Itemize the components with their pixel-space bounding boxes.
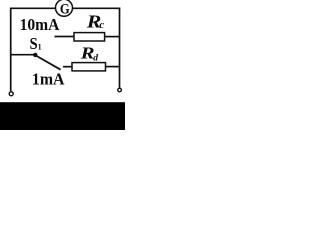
switch S1 arm (blade): [37, 56, 61, 70]
svg-text:1mA: 1mA: [32, 70, 65, 89]
wire left rail: [10, 8, 12, 92]
resistor Rc body: [74, 33, 105, 41]
label S1 (switch name): [30, 34, 42, 53]
svg-text:c: c: [99, 19, 104, 31]
galvanometer G (meter circle): [56, 0, 73, 17]
svg-text:1: 1: [38, 43, 42, 52]
svg-text:10mA: 10mA: [20, 15, 60, 34]
label Rd: [80, 43, 99, 63]
wire resistor Rc to right rail: [105, 36, 120, 38]
scan black band at page bottom: [0, 102, 125, 130]
resistor Rd body: [72, 63, 106, 71]
switch S1 pivot junction dot: [33, 53, 37, 57]
wire resistor Rd to right rail: [106, 66, 121, 68]
wire to resistor Rc (10mA contact): [55, 36, 75, 38]
terminal bottom-left: [9, 92, 13, 96]
wire top-left from left rail to galvanometer: [10, 7, 56, 9]
svg-text:G: G: [60, 1, 70, 17]
wire right rail: [119, 8, 121, 88]
svg-text:d: d: [93, 53, 98, 63]
wire stub to switch pivot: [11, 54, 34, 56]
wire top-right from galvanometer to right rail: [73, 7, 121, 9]
svg-text:S: S: [30, 34, 38, 53]
label Rc: [86, 11, 105, 31]
terminal bottom-right: [118, 88, 122, 92]
wire to resistor Rd (1mA contact): [63, 66, 73, 68]
